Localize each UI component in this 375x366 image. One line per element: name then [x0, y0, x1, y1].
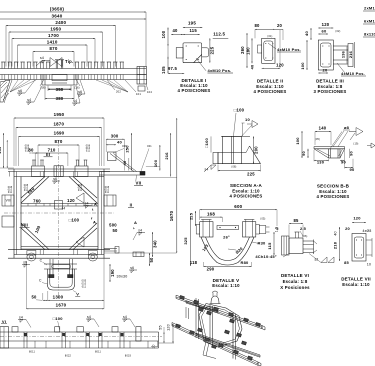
svg-text:4xM10 Pos.: 4xM10 Pos.	[341, 71, 365, 76]
view: isometric assembly	[172, 291, 265, 366]
SECCION B-B	[295, 125, 375, 199]
iso lifting hook	[211, 296, 219, 304]
svg-text:C: C	[40, 259, 43, 263]
svg-text:325: 325	[183, 237, 188, 245]
svg-text:100: 100	[295, 137, 300, 145]
svg-text:s4: s4	[19, 316, 23, 320]
svg-text:118: 118	[190, 260, 198, 265]
svg-text:40: 40	[304, 31, 309, 36]
svg-text:s6: s6	[53, 177, 57, 181]
weld symbol Tip.	[36, 61, 42, 67]
svg-text:85: 85	[344, 260, 349, 265]
iso top rail	[176, 295, 262, 325]
svg-text:104: 104	[147, 90, 152, 94]
svg-text:s4: s4	[87, 315, 91, 319]
svg-text:80: 80	[254, 23, 260, 28]
svg-text:2.5: 2.5	[300, 226, 307, 231]
top-right notes	[363, 6, 375, 38]
svg-text:120: 120	[67, 198, 75, 203]
svg-text:011: 011	[78, 190, 83, 192]
svg-text:115: 115	[189, 28, 197, 33]
svg-text:4xØ8: 4xØ8	[363, 229, 372, 233]
svg-text:SECCION B-B: SECCION B-B	[317, 183, 350, 188]
left-side dims	[3, 133, 5, 168]
svg-text:870: 870	[49, 46, 57, 51]
svg-text:s6: s6	[130, 266, 134, 270]
svg-text:97.5: 97.5	[168, 66, 177, 71]
svg-text:(08): (08)	[231, 166, 236, 169]
svg-text:□100: □100	[53, 316, 64, 321]
svg-text:1670: 1670	[169, 210, 174, 221]
svg-text:s4: s4	[27, 98, 31, 102]
svg-text:s4: s4	[73, 99, 77, 103]
svg-text:10: 10	[245, 117, 250, 122]
svg-text:90: 90	[350, 167, 355, 172]
svg-text:011: 011	[105, 192, 110, 194]
svg-text:4 POSICIONES: 4 POSICIONES	[317, 194, 350, 199]
svg-text:4 POSICIONES: 4 POSICIONES	[254, 89, 287, 94]
svg-text:8022: 8022	[65, 355, 72, 358]
svg-text:90: 90	[348, 151, 353, 156]
beam band	[0, 331, 159, 333]
svg-text:290: 290	[207, 267, 215, 272]
beam right end	[137, 67, 147, 85]
svg-text:870: 870	[55, 139, 63, 144]
bottom rollers	[27, 253, 36, 261]
svg-text:s6: s6	[78, 90, 82, 94]
stiffener posts	[1, 61, 5, 63]
svg-text:VIII: VIII	[6, 199, 12, 203]
svg-text:SECCION A-A: SECCION A-A	[230, 183, 263, 188]
svg-text:125: 125	[188, 212, 193, 220]
centerlines	[58, 140, 60, 300]
svg-text:4Ch10:45°: 4Ch10:45°	[255, 254, 277, 259]
svg-text:□100: □100	[234, 108, 245, 113]
svg-text:130: 130	[317, 159, 325, 164]
svg-text:100: 100	[153, 159, 158, 167]
svg-text:260: 260	[240, 46, 245, 54]
DETALLE VI	[255, 218, 334, 290]
svg-text:218: 218	[333, 241, 338, 249]
svg-text:140: 140	[319, 126, 327, 131]
lower chord	[21, 246, 98, 248]
svg-text:s4: s4	[40, 56, 44, 60]
DETALLE VII	[333, 216, 373, 288]
svg-text:225: 225	[210, 46, 215, 54]
svg-text:s4: s4	[204, 168, 208, 172]
iso clamps	[179, 295, 184, 299]
svg-text:8x110: 8x110	[364, 32, 375, 37]
svg-text:s4: s4	[123, 315, 127, 319]
right extension arm	[99, 171, 145, 173]
svg-text:008: 008	[122, 145, 127, 148]
svg-text:s4: s4	[62, 207, 66, 211]
svg-text:120: 120	[322, 22, 330, 27]
svg-text:Escala: 1:10: Escala: 1:10	[212, 283, 240, 288]
svg-text:6xM10: 6xM10	[364, 19, 375, 24]
svg-text:(01): (01)	[267, 35, 272, 38]
view: plan of frame	[0, 112, 177, 309]
svg-text:202: 202	[116, 90, 121, 94]
svg-text:120: 120	[276, 63, 284, 68]
bottom saddle	[49, 259, 51, 276]
center bottom plates	[41, 75, 43, 86]
svg-text:20: 20	[323, 68, 328, 73]
side clamps	[2, 195, 14, 206]
svg-text:1870: 1870	[53, 122, 64, 127]
top rail clamps	[32, 166, 45, 177]
svg-text:120: 120	[167, 324, 171, 331]
svg-text:4 POSICIONES: 4 POSICIONES	[230, 194, 263, 199]
svg-text:168: 168	[207, 212, 215, 217]
svg-text:R80: R80	[241, 260, 250, 265]
svg-text:100: 100	[161, 30, 166, 38]
frame bottom rail	[8, 249, 110, 251]
svg-text:100: 100	[300, 62, 305, 70]
svg-text:250: 250	[0, 147, 2, 154]
svg-text:136: 136	[341, 50, 346, 58]
svg-text:s4: s4	[138, 229, 142, 233]
svg-text:A: A	[94, 202, 97, 207]
svg-text:115: 115	[267, 242, 272, 250]
view: bottom side elevation	[0, 315, 174, 358]
svg-text:4xM10 Pos.: 4xM10 Pos.	[208, 68, 232, 73]
svg-text:DETALLE VII: DETALLE VII	[341, 277, 371, 282]
svg-text:011: 011	[25, 151, 30, 153]
svg-text:011: 011	[86, 151, 91, 153]
DETALLE III	[300, 22, 366, 94]
iso struts	[203, 342, 206, 356]
svg-text:40: 40	[251, 65, 255, 70]
svg-text:VII: VII	[136, 181, 142, 186]
svg-text:380: 380	[56, 96, 64, 101]
svg-text:120: 120	[353, 216, 361, 221]
svg-text:3 POSICIONES: 3 POSICIONES	[314, 89, 347, 94]
svg-text:40: 40	[172, 28, 178, 33]
svg-text:DETALLE III: DETALLE III	[316, 79, 344, 84]
svg-text:ø8: ø8	[344, 125, 350, 130]
svg-text:s4: s4	[85, 202, 89, 206]
svg-text:Tip.: Tip.	[65, 59, 73, 64]
svg-text:III: III	[46, 152, 50, 157]
svg-text:(06): (06)	[302, 235, 307, 238]
svg-text:30x30: 30x30	[117, 275, 128, 279]
beam body	[0, 68, 146, 70]
svg-text:216: 216	[164, 152, 169, 160]
svg-text:DETALLE VI: DETALLE VI	[281, 273, 309, 278]
svg-text:55: 55	[159, 325, 163, 330]
svg-text:4xM10 Pos.: 4xM10 Pos.	[277, 47, 301, 52]
svg-text:2xM16: 2xM16	[364, 6, 375, 11]
svg-text:105: 105	[161, 66, 166, 74]
svg-text:□100: □100	[204, 137, 209, 148]
svg-text:A: A	[93, 220, 96, 225]
weld flags	[17, 92, 25, 94]
svg-text:20: 20	[345, 226, 350, 231]
svg-text:Escala: 1:10: Escala: 1:10	[342, 282, 370, 287]
svg-text:Escala: 1:8: Escala: 1:8	[283, 279, 308, 284]
svg-text:216: 216	[348, 50, 353, 58]
svg-text:190: 190	[110, 269, 115, 277]
svg-text:VI: VI	[2, 319, 6, 324]
middle member	[21, 203, 98, 205]
svg-text:DETALLE II: DETALLE II	[257, 79, 283, 84]
corner braces	[21, 177, 45, 199]
svg-text:(05): (05)	[315, 138, 320, 141]
right vertical dims	[176, 118, 178, 253]
svg-text:60: 60	[322, 29, 327, 34]
svg-text:195: 195	[188, 20, 196, 25]
svg-text:50: 50	[31, 295, 37, 300]
svg-text:8033: 8033	[125, 355, 132, 358]
SECCION A-A	[204, 108, 263, 199]
svg-text:011: 011	[8, 192, 13, 194]
frame top rail	[8, 168, 110, 170]
bottom dims	[43, 299, 48, 301]
svg-text:R30: R30	[258, 241, 267, 246]
svg-text:600: 600	[234, 204, 242, 209]
svg-text:C: C	[39, 279, 42, 283]
svg-text:VIII: VIII	[21, 223, 28, 228]
view: front elevation of crossbeam	[0, 6, 152, 105]
svg-text:s6: s6	[18, 89, 22, 93]
svg-text:85: 85	[293, 218, 299, 223]
svg-text:300: 300	[111, 133, 119, 138]
svg-text:s6: s6	[23, 261, 27, 265]
svg-text:340: 340	[153, 240, 158, 248]
svg-text:2400: 2400	[55, 20, 66, 25]
svg-text:(05): (05)	[260, 218, 265, 221]
svg-text:101: 101	[136, 92, 141, 96]
svg-text:500: 500	[109, 223, 117, 228]
svg-text:200: 200	[253, 146, 258, 154]
svg-text:(3650): (3650)	[50, 6, 65, 11]
svg-text:112.5: 112.5	[213, 31, 225, 36]
svg-text:1950: 1950	[54, 112, 65, 117]
svg-text:011: 011	[82, 286, 87, 289]
svg-text:40: 40	[117, 139, 122, 144]
svg-text:001: 001	[147, 145, 152, 148]
svg-text:A: A	[134, 220, 137, 225]
DETALLE II	[240, 23, 301, 94]
svg-text:(02): (02)	[335, 30, 340, 33]
svg-text:350: 350	[56, 87, 64, 92]
svg-text:8011: 8011	[29, 351, 35, 354]
svg-text:20: 20	[277, 23, 283, 28]
svg-text:(16): (16)	[74, 86, 80, 90]
svg-text:4 POSICIONES: 4 POSICIONES	[178, 88, 211, 93]
svg-text:□100: □100	[69, 218, 80, 223]
svg-text:1690: 1690	[54, 131, 65, 136]
svg-text:225: 225	[247, 171, 255, 176]
svg-text:180: 180	[246, 47, 251, 55]
svg-text:1410: 1410	[47, 39, 58, 44]
DETALLE V	[183, 204, 278, 288]
svg-text:V: V	[76, 292, 79, 297]
frame side rails	[13, 169, 15, 258]
svg-text:1300: 1300	[53, 295, 64, 300]
svg-text:50: 50	[149, 257, 154, 263]
iso ring frame	[199, 304, 242, 348]
svg-text:8011: 8011	[95, 351, 101, 354]
svg-text:40: 40	[334, 231, 338, 236]
svg-text:26°: 26°	[223, 235, 230, 240]
svg-text:II: II	[130, 203, 133, 208]
svg-text:1700: 1700	[48, 33, 59, 38]
iso bottom rails	[172, 323, 258, 363]
svg-text:(19): (19)	[353, 143, 358, 146]
svg-text:10: 10	[367, 263, 371, 267]
svg-text:1950: 1950	[50, 26, 61, 31]
svg-text:760: 760	[33, 198, 41, 203]
svg-text:X Posiciones: X Posiciones	[280, 285, 310, 290]
iso posts	[195, 298, 197, 338]
DETALLE I	[161, 20, 233, 93]
svg-text:1670: 1670	[56, 303, 67, 308]
svg-text:011: 011	[24, 190, 29, 192]
svg-text:50: 50	[112, 228, 118, 233]
svg-text:3640: 3640	[52, 13, 63, 18]
right end dims	[159, 342, 175, 344]
svg-text:90: 90	[341, 159, 346, 164]
